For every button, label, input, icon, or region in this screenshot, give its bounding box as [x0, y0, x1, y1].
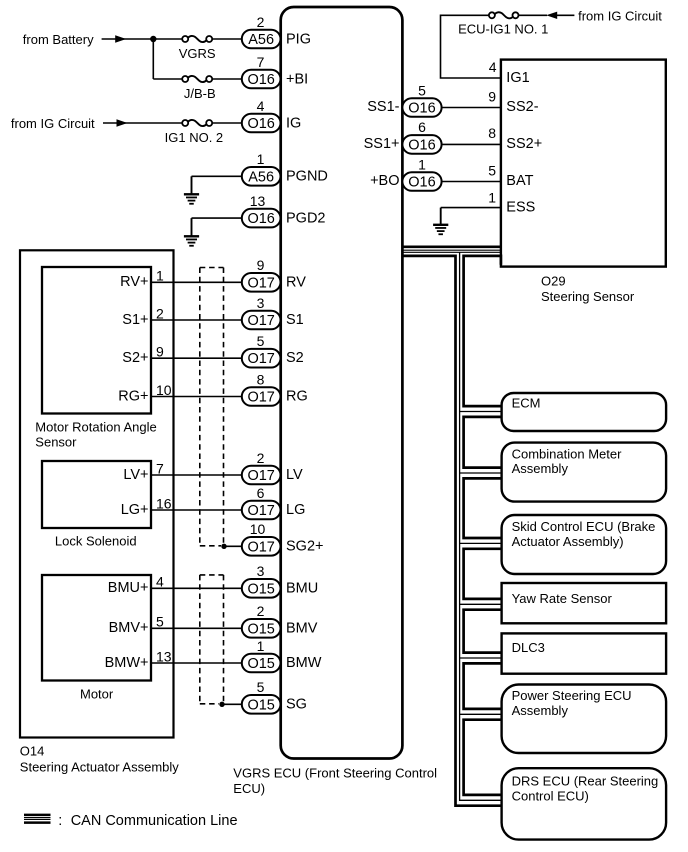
- svg-text:7: 7: [257, 54, 265, 70]
- ground PGD2: [191, 218, 193, 235]
- svg-text:ESS: ESS: [506, 200, 535, 216]
- svg-text:Control ECU): Control ECU): [512, 789, 589, 804]
- arrow from IG Circuit (right): [546, 12, 557, 19]
- svg-text:O29: O29: [541, 274, 566, 289]
- svg-text:Yaw Rate Sensor: Yaw Rate Sensor: [512, 591, 613, 606]
- svg-text:8: 8: [488, 125, 496, 141]
- svg-text:S1: S1: [286, 312, 304, 328]
- svg-text:O15: O15: [247, 621, 274, 637]
- svg-text:O16: O16: [247, 211, 274, 227]
- svg-text:RV: RV: [286, 274, 306, 290]
- svg-text:CAN Communication Line: CAN Communication Line: [71, 813, 238, 829]
- svg-text:Assembly: Assembly: [512, 461, 569, 476]
- wire SS1- to SS2-: [442, 107, 501, 109]
- svg-text:IG: IG: [286, 115, 301, 131]
- shield dashed box motor wires: [200, 574, 224, 576]
- junction shield drain SG2+: [221, 544, 226, 549]
- svg-text:BMV+: BMV+: [109, 620, 149, 636]
- wire BMU+ to BMU: [151, 587, 242, 589]
- wire LV+ to LV: [151, 474, 242, 476]
- svg-text:BMV: BMV: [286, 620, 318, 636]
- svg-text:Motor Rotation Angle: Motor Rotation Angle: [35, 419, 156, 434]
- svg-text:4: 4: [257, 98, 265, 114]
- svg-text:+BO: +BO: [370, 173, 399, 189]
- svg-text:IG1: IG1: [506, 70, 529, 86]
- svg-text:LV+: LV+: [123, 467, 148, 483]
- CAN bus trunk thin: [460, 252, 502, 800]
- arrow from Battery: [115, 35, 126, 42]
- CAN bus trunk outer left: [402, 256, 502, 806]
- wire ESS to ground: [441, 207, 501, 209]
- svg-text:BMU+: BMU+: [108, 580, 149, 596]
- svg-text:from IG Circuit: from IG Circuit: [11, 116, 95, 131]
- svg-text:PIG: PIG: [286, 31, 311, 47]
- svg-text:LG+: LG+: [121, 502, 149, 518]
- svg-text:SS2+: SS2+: [506, 136, 542, 152]
- svg-text:DLC3: DLC3: [512, 640, 545, 655]
- svg-text:O16: O16: [408, 137, 435, 153]
- svg-text:8: 8: [257, 371, 265, 387]
- shield dashed box sensor wires: [200, 267, 224, 269]
- svg-text:O15: O15: [247, 697, 274, 713]
- wire LG+ to LG: [151, 509, 242, 511]
- ground ESS: [440, 208, 442, 224]
- svg-text:13: 13: [250, 193, 266, 209]
- svg-text:1: 1: [257, 151, 265, 167]
- svg-text:9: 9: [488, 88, 496, 104]
- svg-text:O17: O17: [247, 275, 274, 291]
- svg-text:2: 2: [156, 305, 164, 321]
- block Skid Control ECU (Brake Actuator Assembly): [502, 515, 666, 574]
- CAN tap thin ECM: [460, 411, 502, 413]
- svg-text:S2: S2: [286, 350, 304, 366]
- svg-text:A56: A56: [248, 169, 274, 185]
- svg-text:4: 4: [156, 574, 164, 590]
- svg-text:RV+: RV+: [120, 274, 148, 290]
- junction shield drain SG: [219, 702, 224, 707]
- wire +BO to BAT: [442, 181, 501, 183]
- svg-text:Steering Actuator Assembly: Steering Actuator Assembly: [20, 759, 179, 774]
- svg-text:O17: O17: [247, 351, 274, 367]
- svg-text:RG+: RG+: [118, 388, 148, 404]
- block ECM: [502, 393, 666, 431]
- svg-text:from Battery: from Battery: [23, 32, 94, 47]
- svg-text:1: 1: [488, 190, 496, 206]
- block Motor: [42, 575, 151, 681]
- svg-text:+BI: +BI: [286, 71, 308, 87]
- svg-text:1: 1: [418, 156, 426, 172]
- CAN tap thin Skid Control ECU: [460, 542, 502, 544]
- block DRS ECU (Rear Steering Control ECU): [502, 768, 666, 839]
- svg-text:S2+: S2+: [122, 350, 148, 366]
- svg-text:ECU-IG1 NO. 1: ECU-IG1 NO. 1: [458, 22, 548, 37]
- fuse IG1 NO. 2: [188, 120, 207, 126]
- svg-text:Sensor: Sensor: [35, 435, 77, 450]
- svg-text:SG: SG: [286, 696, 307, 712]
- wire shield drain SG: [222, 703, 242, 705]
- fuse J/B-B: [188, 76, 207, 82]
- CAN tap thin DLC3: [460, 657, 502, 659]
- svg-text:Actuator Assembly): Actuator Assembly): [512, 534, 624, 549]
- svg-text:BMW: BMW: [286, 655, 322, 671]
- wire from Battery to fuse VGRS: [102, 38, 183, 40]
- svg-text:SG2+: SG2+: [286, 538, 323, 554]
- svg-text:1: 1: [156, 268, 164, 284]
- svg-text:5: 5: [156, 614, 164, 630]
- svg-text:SS1-: SS1-: [367, 99, 399, 115]
- wire PGND to ground: [192, 175, 242, 177]
- svg-text:5: 5: [257, 333, 265, 349]
- CAN tap thin Combination Meter Assembly: [460, 472, 502, 474]
- svg-text:Combination Meter: Combination Meter: [512, 447, 622, 462]
- svg-text:LV: LV: [286, 467, 303, 483]
- svg-text:O16: O16: [247, 72, 274, 88]
- wire SS1+ to SS2+: [442, 143, 501, 145]
- svg-text:O17: O17: [247, 390, 274, 406]
- svg-text:5: 5: [488, 162, 496, 178]
- svg-text:PGND: PGND: [286, 169, 328, 185]
- svg-text:Power Steering ECU: Power Steering ECU: [512, 688, 632, 703]
- svg-text:10: 10: [156, 382, 172, 398]
- svg-text:16: 16: [156, 495, 172, 511]
- svg-text:from IG Circuit: from IG Circuit: [578, 8, 662, 23]
- svg-text:O17: O17: [247, 313, 274, 329]
- CAN bus trunk outer right and taps: [464, 256, 502, 406]
- block Power Steering ECU Assembly: [502, 685, 666, 754]
- wire from IG Circuit to fuse IG1 NO. 2: [103, 122, 183, 124]
- CAN tap thin Power Steering ECU Assembly: [460, 713, 502, 715]
- junction battery branch: [150, 36, 156, 42]
- svg-text:2: 2: [257, 14, 265, 30]
- svg-text:BMW+: BMW+: [105, 655, 149, 671]
- svg-text:Skid Control ECU (Brake: Skid Control ECU (Brake: [512, 519, 656, 534]
- wire fuse to IG1 pin: [441, 15, 501, 78]
- svg-text:O14: O14: [20, 744, 45, 759]
- svg-text:ECU): ECU): [233, 781, 265, 796]
- svg-text:VGRS: VGRS: [179, 46, 216, 61]
- svg-text:O15: O15: [247, 656, 274, 672]
- svg-text:2: 2: [257, 603, 265, 619]
- svg-text:7: 7: [156, 460, 164, 476]
- wire PGD2 to ground: [192, 217, 242, 219]
- ECU block VGRS ECU (Front Steering Control ECU): [281, 7, 403, 759]
- svg-text:O17: O17: [247, 503, 274, 519]
- svg-text:3: 3: [257, 295, 265, 311]
- svg-text:Assembly: Assembly: [512, 703, 569, 718]
- svg-text:1: 1: [257, 638, 265, 654]
- wire BMV+ to BMV: [151, 627, 242, 629]
- wire from IG Circuit to fuse ECU-IG1 NO. 1: [557, 14, 574, 16]
- block Yaw Rate Sensor: [502, 583, 666, 623]
- svg-text:6: 6: [257, 485, 265, 501]
- svg-text:9: 9: [156, 344, 164, 360]
- svg-text:S1+: S1+: [122, 312, 148, 328]
- svg-text:4: 4: [489, 59, 497, 75]
- svg-text:J/B-B: J/B-B: [184, 86, 216, 101]
- svg-text:SS1+: SS1+: [364, 136, 400, 152]
- svg-text:3: 3: [257, 563, 265, 579]
- fuse VGRS: [188, 36, 207, 42]
- svg-text:SS2-: SS2-: [506, 99, 538, 115]
- svg-text:RG: RG: [286, 389, 308, 405]
- fuse ECU-IG1 NO. 1: [495, 12, 514, 18]
- ground PGND: [191, 176, 193, 193]
- svg-text:LG: LG: [286, 502, 305, 518]
- svg-text:IG1 NO. 2: IG1 NO. 2: [165, 130, 224, 145]
- svg-text:10: 10: [250, 521, 266, 537]
- block O29 Steering Sensor: [501, 60, 666, 267]
- block DLC3: [502, 633, 666, 673]
- wire shield drain SG2+: [224, 545, 242, 547]
- block Lock Solenoid: [42, 461, 151, 528]
- block O14 Steering Actuator Assembly: [20, 250, 174, 737]
- svg-text:PGD2: PGD2: [286, 210, 326, 226]
- CAN bus horizontal ECU to O29 line 1: [402, 246, 501, 249]
- svg-text::: :: [58, 813, 62, 829]
- svg-text:ECM: ECM: [512, 396, 541, 411]
- svg-text:2: 2: [257, 450, 265, 466]
- block Combination Meter Assembly: [502, 443, 666, 502]
- svg-text:VGRS ECU (Front Steering Contr: VGRS ECU (Front Steering Control: [233, 765, 437, 780]
- svg-text:O17: O17: [247, 539, 274, 555]
- svg-text:Steering Sensor: Steering Sensor: [541, 289, 635, 304]
- wire S2+ to S2: [151, 357, 242, 359]
- svg-text:BMU: BMU: [286, 580, 318, 596]
- wire battery branch to J/B-B: [152, 39, 154, 79]
- wire BMW+ to BMW: [151, 662, 242, 664]
- svg-text:13: 13: [156, 648, 172, 664]
- block Motor Rotation Angle Sensor: [42, 267, 151, 414]
- wire S1+ to S1: [151, 319, 242, 321]
- svg-text:Lock Solenoid: Lock Solenoid: [55, 533, 137, 548]
- legend CAN communication line symbol: [24, 814, 51, 817]
- wire RG+ to RG: [151, 396, 242, 398]
- wire RV+ to RV: [151, 281, 242, 283]
- svg-text:O16: O16: [408, 101, 435, 117]
- svg-text:O16: O16: [408, 175, 435, 191]
- arrow from IG Circuit (left): [117, 119, 128, 126]
- svg-text:6: 6: [418, 119, 426, 135]
- svg-text:5: 5: [418, 82, 426, 98]
- svg-text:O16: O16: [247, 116, 274, 132]
- svg-text:BAT: BAT: [506, 173, 533, 189]
- svg-text:A56: A56: [248, 32, 274, 48]
- svg-text:9: 9: [257, 257, 265, 273]
- svg-text:O17: O17: [247, 468, 274, 484]
- CAN tap thin Yaw Rate Sensor: [460, 603, 502, 605]
- svg-text:5: 5: [257, 679, 265, 695]
- CAN bus horizontal ECU to O29 thin lines: [402, 249, 501, 251]
- svg-text:Motor: Motor: [80, 687, 114, 702]
- svg-text:DRS ECU (Rear Steering: DRS ECU (Rear Steering: [512, 774, 659, 789]
- svg-text:O15: O15: [247, 581, 274, 597]
